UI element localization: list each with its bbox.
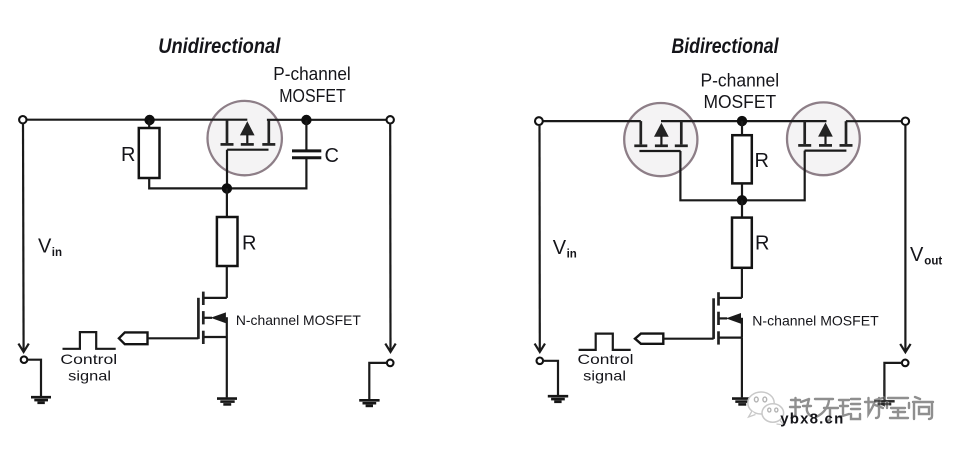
- wire down to R2: [226, 188, 228, 217]
- wire left rail Vin: [22, 123, 25, 350]
- wire to ground left: [27, 360, 41, 397]
- resistor R3: [732, 135, 752, 183]
- wire Q3 gate tail to center net: [680, 151, 742, 200]
- wire top rail left segment (Vin terminal to Q1 body tap): [26, 119, 248, 121]
- p-mosfet Q1 body arrow: [240, 121, 255, 135]
- svg-text:ybx8.cn: ybx8.cn: [780, 411, 844, 428]
- n-mosfet Q5 body stub and arrow: [719, 317, 727, 319]
- wire R1 bottom lead and bottom net: [149, 158, 306, 189]
- p-mosfet Q4 source bar: [803, 121, 806, 144]
- p-mosfet Q4 body circle: [787, 102, 860, 175]
- wire R2 bottom lead to Q2 drain: [226, 266, 228, 298]
- ground bottom right partially visible through watermark: [874, 380, 894, 404]
- svg-text:Control: Control: [578, 351, 634, 367]
- svg-text:N-channel MOSFET: N-channel MOSFET: [236, 312, 361, 328]
- capacitor C1 plates: [292, 149, 321, 152]
- svg-text:in: in: [567, 248, 577, 260]
- wire right rail (output side): [389, 123, 391, 350]
- p-mosfet Q3 body circle: [624, 103, 697, 176]
- svg-text:V: V: [553, 237, 567, 259]
- wire R3 bottom lead: [741, 183, 743, 200]
- ground bottom right: [874, 401, 894, 407]
- wire Q4 gate tail to center net: [742, 151, 805, 201]
- resistor R1: [139, 128, 160, 178]
- terminal bottom left: [537, 358, 544, 365]
- watermark logo bubbles: [748, 392, 784, 425]
- wire top rail right segment (Q1 drain to output terminal): [267, 119, 388, 121]
- n-mosfet Q2 gate bar: [197, 298, 200, 339]
- resistor R1 top lead: [148, 120, 150, 128]
- arrow down on Vin rail: [18, 344, 28, 352]
- wire top rail segment 3 (Q4 drain bar to Vout terminal): [846, 120, 903, 122]
- p-mosfet Q3 gate line: [639, 150, 680, 152]
- svg-text:R: R: [242, 232, 256, 254]
- arrow down on Vout rail: [900, 344, 910, 352]
- node junction dot gate net center: [737, 195, 747, 205]
- capacitor C1 top lead: [305, 120, 307, 150]
- node junction dot gate net: [222, 183, 232, 193]
- control signal pointer flag (right circuit): [635, 334, 663, 344]
- svg-text:out: out: [924, 256, 942, 268]
- p-mosfet Q3 body arrow: [654, 123, 669, 137]
- svg-text:N-channel MOSFET: N-channel MOSFET: [752, 313, 879, 329]
- p-mosfet Q3 drain bar: [680, 121, 683, 144]
- resistor R3 top lead: [741, 121, 743, 135]
- n-mosfet Q5 source stub: [719, 337, 742, 339]
- svg-text:Unidirectional: Unidirectional: [158, 35, 281, 58]
- node junction dot R top: [144, 115, 154, 125]
- node junction dot C top: [301, 115, 311, 125]
- wire Q1 gate tail down to bottom net: [226, 150, 228, 189]
- control signal pulse symbol: [63, 332, 116, 349]
- svg-text:P-channel: P-channel: [273, 63, 351, 84]
- wire flag to Q2 gate: [148, 337, 199, 339]
- p-mosfet Q4 gate line: [805, 150, 847, 152]
- control signal pointer flag: [119, 332, 148, 344]
- ground bottom left (right circuit): [548, 396, 568, 402]
- p-mosfet Q1 body circle: [208, 101, 282, 175]
- p-mosfet Q1 channel dashes: [221, 143, 234, 146]
- p-mosfet Q3 source bar: [639, 121, 642, 144]
- svg-text:R: R: [121, 144, 135, 166]
- arrow down on Vin rail: [535, 344, 545, 352]
- node junction dot center rail: [737, 116, 747, 126]
- n-mosfet Q5 gate bar: [712, 298, 715, 339]
- p-mosfet Q1 drain bar: [267, 120, 270, 143]
- p-mosfet Q4 drain bar: [845, 121, 848, 144]
- p-mosfet Q1 gate line: [227, 149, 268, 151]
- terminal input (node Vin top right circuit): [535, 117, 543, 125]
- control signal pulse symbol (right circuit): [579, 334, 631, 350]
- svg-text:C: C: [325, 145, 339, 167]
- wire to ground: [884, 363, 902, 400]
- n-mosfet Q5 drain stub: [719, 297, 742, 299]
- wire to ground: [543, 361, 558, 395]
- svg-text:in: in: [52, 247, 62, 259]
- n-mosfet Q2 body stub and arrow: [204, 317, 212, 319]
- wire right rail Vout: [904, 125, 906, 351]
- svg-text:P-channel: P-channel: [700, 69, 779, 90]
- terminal input (node Vin top): [19, 116, 26, 123]
- watermark chinese text 转子磁场定向 (approximated strokes): [790, 397, 933, 421]
- wire top rail segment 2 (Q3 body tap through center to Q4 body tap): [661, 120, 827, 122]
- svg-text:V: V: [38, 236, 52, 258]
- svg-text:signal: signal: [583, 368, 626, 384]
- svg-text:MOSFET: MOSFET: [703, 91, 776, 112]
- wire top rail segment 1 (Vin terminal to Q3 source bar): [542, 120, 641, 122]
- arrow down on right rail: [385, 344, 395, 352]
- resistor R2: [217, 217, 238, 266]
- svg-text:R: R: [755, 233, 769, 255]
- wire down to R4: [741, 200, 743, 217]
- terminal output (node top right): [387, 116, 394, 123]
- terminal bottom right: [387, 360, 394, 367]
- n-mosfet Q2 channel dashes: [202, 292, 205, 305]
- wire Q5 source down: [741, 338, 743, 398]
- p-mosfet Q3 channel dashes: [634, 144, 647, 147]
- svg-text:V: V: [910, 244, 924, 266]
- wire left rail Vin (right circuit): [538, 125, 540, 351]
- p-mosfet Q1 source bar: [226, 120, 229, 144]
- n-mosfet Q2 drain stub: [204, 297, 227, 299]
- ground bottom right: [359, 400, 379, 406]
- wire Q2 source down: [226, 337, 228, 397]
- terminal output (node Vout top): [902, 118, 909, 125]
- svg-text:signal: signal: [68, 368, 111, 384]
- p-mosfet Q4 channel dashes: [798, 144, 811, 147]
- ground under Q5 source: [732, 399, 752, 405]
- wire flag to Q5 gate: [663, 338, 713, 340]
- ground under Q2 source: [217, 399, 237, 405]
- svg-text:MOSFET: MOSFET: [279, 85, 346, 106]
- wire R4 bottom lead to Q5 drain: [741, 268, 743, 298]
- n-mosfet Q2 source stub: [204, 336, 227, 338]
- svg-text:Control: Control: [60, 351, 117, 367]
- ground bottom left: [31, 397, 51, 403]
- terminal bottom right: [902, 360, 909, 367]
- svg-text:R: R: [755, 150, 769, 172]
- terminal bottom left: [21, 356, 28, 363]
- wire to ground right: [369, 363, 387, 399]
- p-mosfet Q4 body arrow: [818, 123, 833, 137]
- n-mosfet Q5 channel dashes: [717, 292, 720, 305]
- svg-text:Bidirectional: Bidirectional: [672, 35, 780, 58]
- resistor R4: [732, 218, 752, 268]
